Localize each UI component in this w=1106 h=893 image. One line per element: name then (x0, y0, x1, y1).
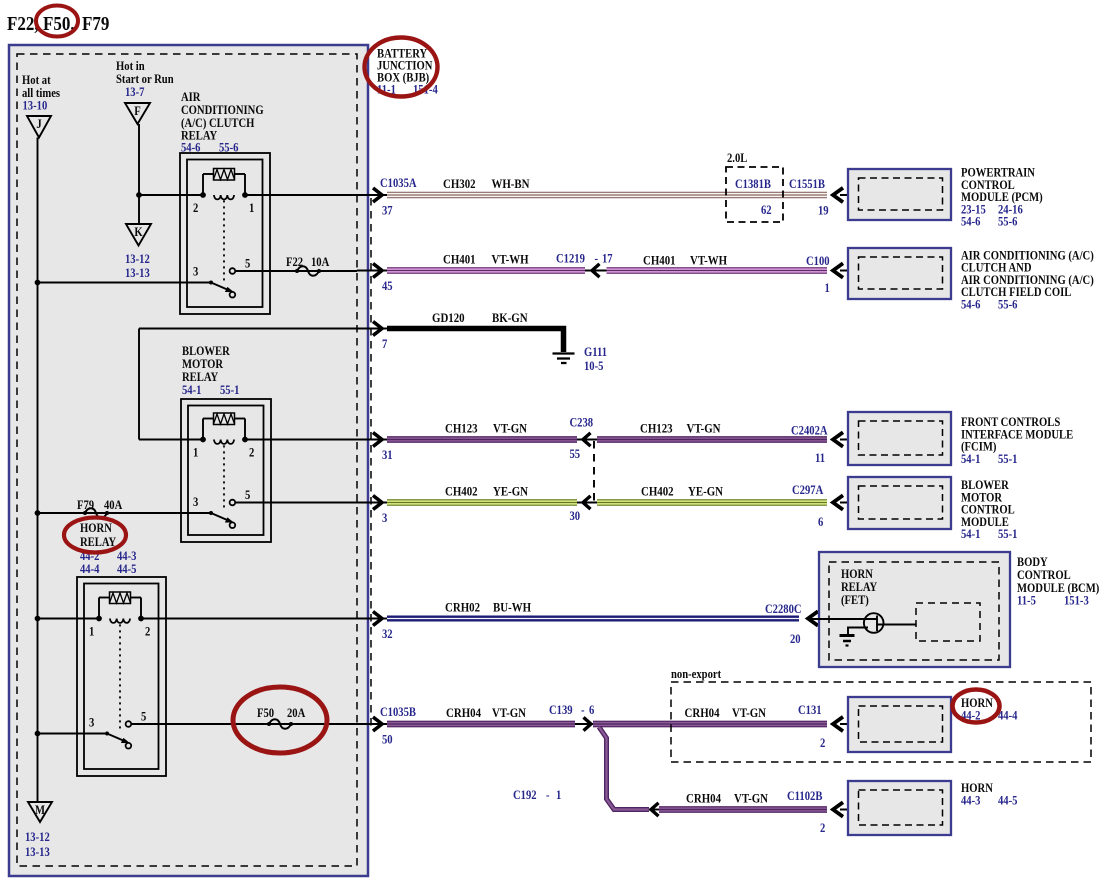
svg-text:3: 3 (89, 716, 94, 730)
svg-text:M: M (35, 803, 45, 817)
svg-text:1: 1 (89, 625, 94, 639)
svg-text:G111: G111 (584, 345, 607, 359)
svg-text:C1035A: C1035A (380, 176, 417, 190)
svg-text:C1551B: C1551B (789, 177, 825, 191)
svg-text:C139: C139 (549, 703, 573, 717)
svg-text:WH-BN: WH-BN (492, 176, 530, 191)
svg-text:CH302: CH302 (443, 176, 476, 191)
svg-text:13-12: 13-12 (25, 830, 50, 844)
svg-text:20A: 20A (287, 706, 306, 720)
svg-text:GD120: GD120 (432, 310, 465, 325)
svg-text:Start or Run: Start or Run (116, 72, 174, 86)
svg-text:32: 32 (382, 627, 393, 641)
svg-text:2: 2 (145, 625, 150, 639)
svg-text:55-1: 55-1 (220, 383, 240, 397)
svg-text:5: 5 (141, 710, 146, 724)
svg-text:55-6: 55-6 (998, 298, 1018, 312)
svg-text:VT-WH: VT-WH (690, 253, 728, 268)
svg-text:1: 1 (249, 201, 254, 215)
svg-text:CH123: CH123 (640, 421, 673, 436)
svg-text:F22,: F22, (7, 13, 39, 36)
svg-text:BLOWER: BLOWER (182, 344, 230, 358)
svg-text:AIR: AIR (181, 90, 201, 104)
svg-text:3: 3 (382, 511, 387, 525)
svg-text:2.0L: 2.0L (727, 151, 748, 165)
svg-text:C1102B: C1102B (787, 789, 823, 803)
svg-text:54-6: 54-6 (961, 298, 981, 312)
svg-text:62: 62 (761, 203, 772, 217)
svg-text:54-1: 54-1 (961, 527, 981, 541)
svg-text:13-13: 13-13 (25, 845, 50, 859)
svg-text:CRH04: CRH04 (686, 791, 721, 806)
svg-text:C131: C131 (798, 703, 822, 717)
svg-text:VT-GN: VT-GN (734, 791, 768, 806)
svg-text:54-1: 54-1 (182, 383, 202, 397)
svg-text:3: 3 (193, 265, 198, 279)
svg-text:13-10: 13-10 (23, 99, 48, 113)
svg-text:50: 50 (382, 733, 393, 747)
svg-text:C1035B: C1035B (380, 705, 416, 719)
svg-text:13-12: 13-12 (125, 252, 150, 266)
svg-text:2: 2 (249, 446, 254, 460)
svg-text:10A: 10A (311, 255, 330, 269)
svg-text:F79: F79 (77, 498, 94, 512)
svg-text:6: 6 (589, 703, 594, 717)
svg-text:HORN: HORN (841, 567, 873, 581)
svg-text:VT-GN: VT-GN (492, 705, 526, 720)
svg-text:55-1: 55-1 (998, 452, 1018, 466)
svg-text:1: 1 (556, 788, 561, 802)
svg-text:5: 5 (245, 257, 250, 271)
svg-text:2: 2 (820, 736, 825, 750)
svg-text:RELAY: RELAY (80, 535, 117, 549)
svg-text:10-5: 10-5 (584, 359, 604, 373)
svg-text:44-3: 44-3 (117, 549, 137, 563)
svg-text:11: 11 (815, 451, 825, 465)
svg-text:44-5: 44-5 (998, 794, 1018, 808)
svg-text:-: - (595, 252, 599, 266)
svg-text:C297A: C297A (792, 483, 824, 497)
svg-text:BU-WH: BU-WH (493, 600, 532, 615)
svg-text:CH123: CH123 (445, 421, 478, 436)
svg-text:151-3: 151-3 (1064, 594, 1089, 608)
svg-text:11-5: 11-5 (1017, 594, 1036, 608)
svg-text:45: 45 (382, 279, 393, 293)
svg-text:non-export: non-export (671, 667, 721, 681)
svg-text:HORN: HORN (80, 521, 112, 535)
svg-text:C2402A: C2402A (791, 424, 828, 438)
svg-text:55-6: 55-6 (998, 215, 1018, 229)
svg-text:5: 5 (245, 488, 250, 502)
svg-text:44-4: 44-4 (80, 562, 100, 576)
svg-text:7: 7 (382, 337, 387, 351)
svg-text:VT-GN: VT-GN (687, 421, 721, 436)
svg-text:55-1: 55-1 (998, 527, 1018, 541)
svg-text:CH401: CH401 (643, 253, 676, 268)
svg-text:YE-GN: YE-GN (493, 484, 528, 499)
svg-text:1: 1 (193, 446, 198, 460)
svg-text:13-13: 13-13 (125, 266, 150, 280)
svg-text:13-7: 13-7 (125, 85, 145, 99)
svg-text:54-1: 54-1 (961, 452, 981, 466)
svg-text:17: 17 (602, 252, 613, 266)
svg-text:Hot at: Hot at (22, 73, 51, 87)
svg-text:F79: F79 (82, 13, 109, 36)
svg-text:-: - (581, 703, 585, 717)
svg-text:C192: C192 (513, 788, 537, 802)
svg-text:J: J (36, 117, 41, 131)
svg-text:BODY: BODY (1017, 555, 1048, 569)
svg-text:2: 2 (193, 201, 198, 215)
svg-text:C238: C238 (570, 416, 594, 430)
svg-text:VT-GN: VT-GN (493, 421, 527, 436)
svg-text:(FET): (FET) (841, 593, 869, 607)
svg-text:F50: F50 (257, 706, 274, 720)
svg-text:CONTROL: CONTROL (1017, 568, 1071, 582)
svg-text:20: 20 (790, 632, 801, 646)
svg-text:30: 30 (570, 509, 581, 523)
svg-text:31: 31 (382, 448, 393, 462)
svg-text:F22: F22 (286, 255, 303, 269)
svg-text:VT-WH: VT-WH (492, 252, 530, 267)
svg-text:CONDITIONING: CONDITIONING (181, 103, 264, 117)
svg-text:19: 19 (818, 204, 829, 218)
svg-text:F: F (134, 104, 140, 118)
svg-text:YE-GN: YE-GN (688, 484, 723, 499)
svg-text:K: K (134, 225, 142, 239)
svg-text:C100: C100 (806, 254, 830, 268)
svg-text:44-5: 44-5 (117, 562, 137, 576)
svg-text:RELAY: RELAY (841, 580, 878, 594)
svg-text:44-3: 44-3 (961, 794, 981, 808)
svg-text:C2280C: C2280C (765, 602, 802, 616)
svg-text:C1219: C1219 (556, 252, 585, 266)
svg-text:37: 37 (382, 204, 393, 218)
svg-text:CRH02: CRH02 (445, 600, 480, 615)
svg-text:3: 3 (193, 495, 198, 509)
svg-text:BK-GN: BK-GN (492, 310, 528, 325)
svg-text:CRH04: CRH04 (685, 705, 720, 720)
svg-text:1: 1 (825, 281, 830, 295)
svg-text:55: 55 (570, 447, 581, 461)
svg-text:RELAY: RELAY (182, 370, 219, 384)
svg-text:CH401: CH401 (443, 252, 476, 267)
svg-text:54-6: 54-6 (961, 215, 981, 229)
svg-text:2: 2 (820, 821, 825, 835)
svg-text:-: - (546, 788, 550, 802)
svg-text:VT-GN: VT-GN (732, 705, 766, 720)
svg-text:MOTOR: MOTOR (182, 357, 224, 371)
svg-text:C1381B: C1381B (735, 177, 771, 191)
svg-text:40A: 40A (104, 498, 123, 512)
svg-text:CH402: CH402 (641, 484, 674, 499)
svg-text:CRH04: CRH04 (446, 705, 481, 720)
svg-text:CH402: CH402 (445, 484, 478, 499)
svg-text:Hot in: Hot in (116, 59, 145, 73)
svg-text:6: 6 (818, 515, 823, 529)
